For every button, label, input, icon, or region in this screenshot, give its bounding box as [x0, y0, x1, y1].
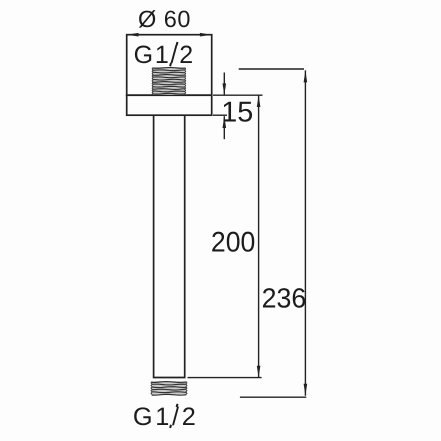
dimension Ø60 right arrowhead	[200, 33, 212, 37]
pipe	[154, 115, 185, 377]
svg-text:15: 15	[221, 97, 253, 129]
escutcheon box	[127, 35, 212, 95]
flange top extension line	[213, 94, 263, 96]
dimension 236 bottom arrowhead	[304, 384, 308, 396]
236 bottom extension line	[240, 396, 306, 398]
top threaded stud G1/2	[152, 67, 186, 95]
pipe bottom extension line	[188, 377, 262, 379]
dimension 236 line	[304, 70, 306, 395]
dimension 15 upper line	[223, 73, 225, 96]
top G1/2 slash extensions	[176, 42, 179, 45]
svg-text:200: 200	[211, 226, 255, 258]
bottom threaded stud G1/2	[151, 381, 187, 395]
svg-text:G1/2: G1/2	[134, 41, 195, 69]
dimension 200 bottom arrowhead	[257, 366, 261, 378]
dimension 15 upper arrowhead	[223, 83, 227, 95]
svg-text:236: 236	[262, 282, 307, 313]
bottom G1/2 slash extensions	[176, 404, 179, 407]
svg-text:Ø 60: Ø 60	[138, 6, 191, 32]
dimension 200 line	[258, 95, 260, 377]
svg-text:G1/2: G1/2	[133, 403, 199, 431]
dimension 236 top arrowhead	[304, 71, 308, 83]
flange bottom extension line	[213, 114, 227, 116]
dimension 15 lower line	[223, 116, 225, 139]
flange plate	[127, 95, 212, 115]
dimension 200 top arrowhead	[257, 95, 261, 107]
236 top extension line	[239, 68, 304, 70]
dimension 15 lower arrowhead	[223, 116, 227, 128]
dimension Ø60 left arrowhead	[127, 33, 139, 37]
